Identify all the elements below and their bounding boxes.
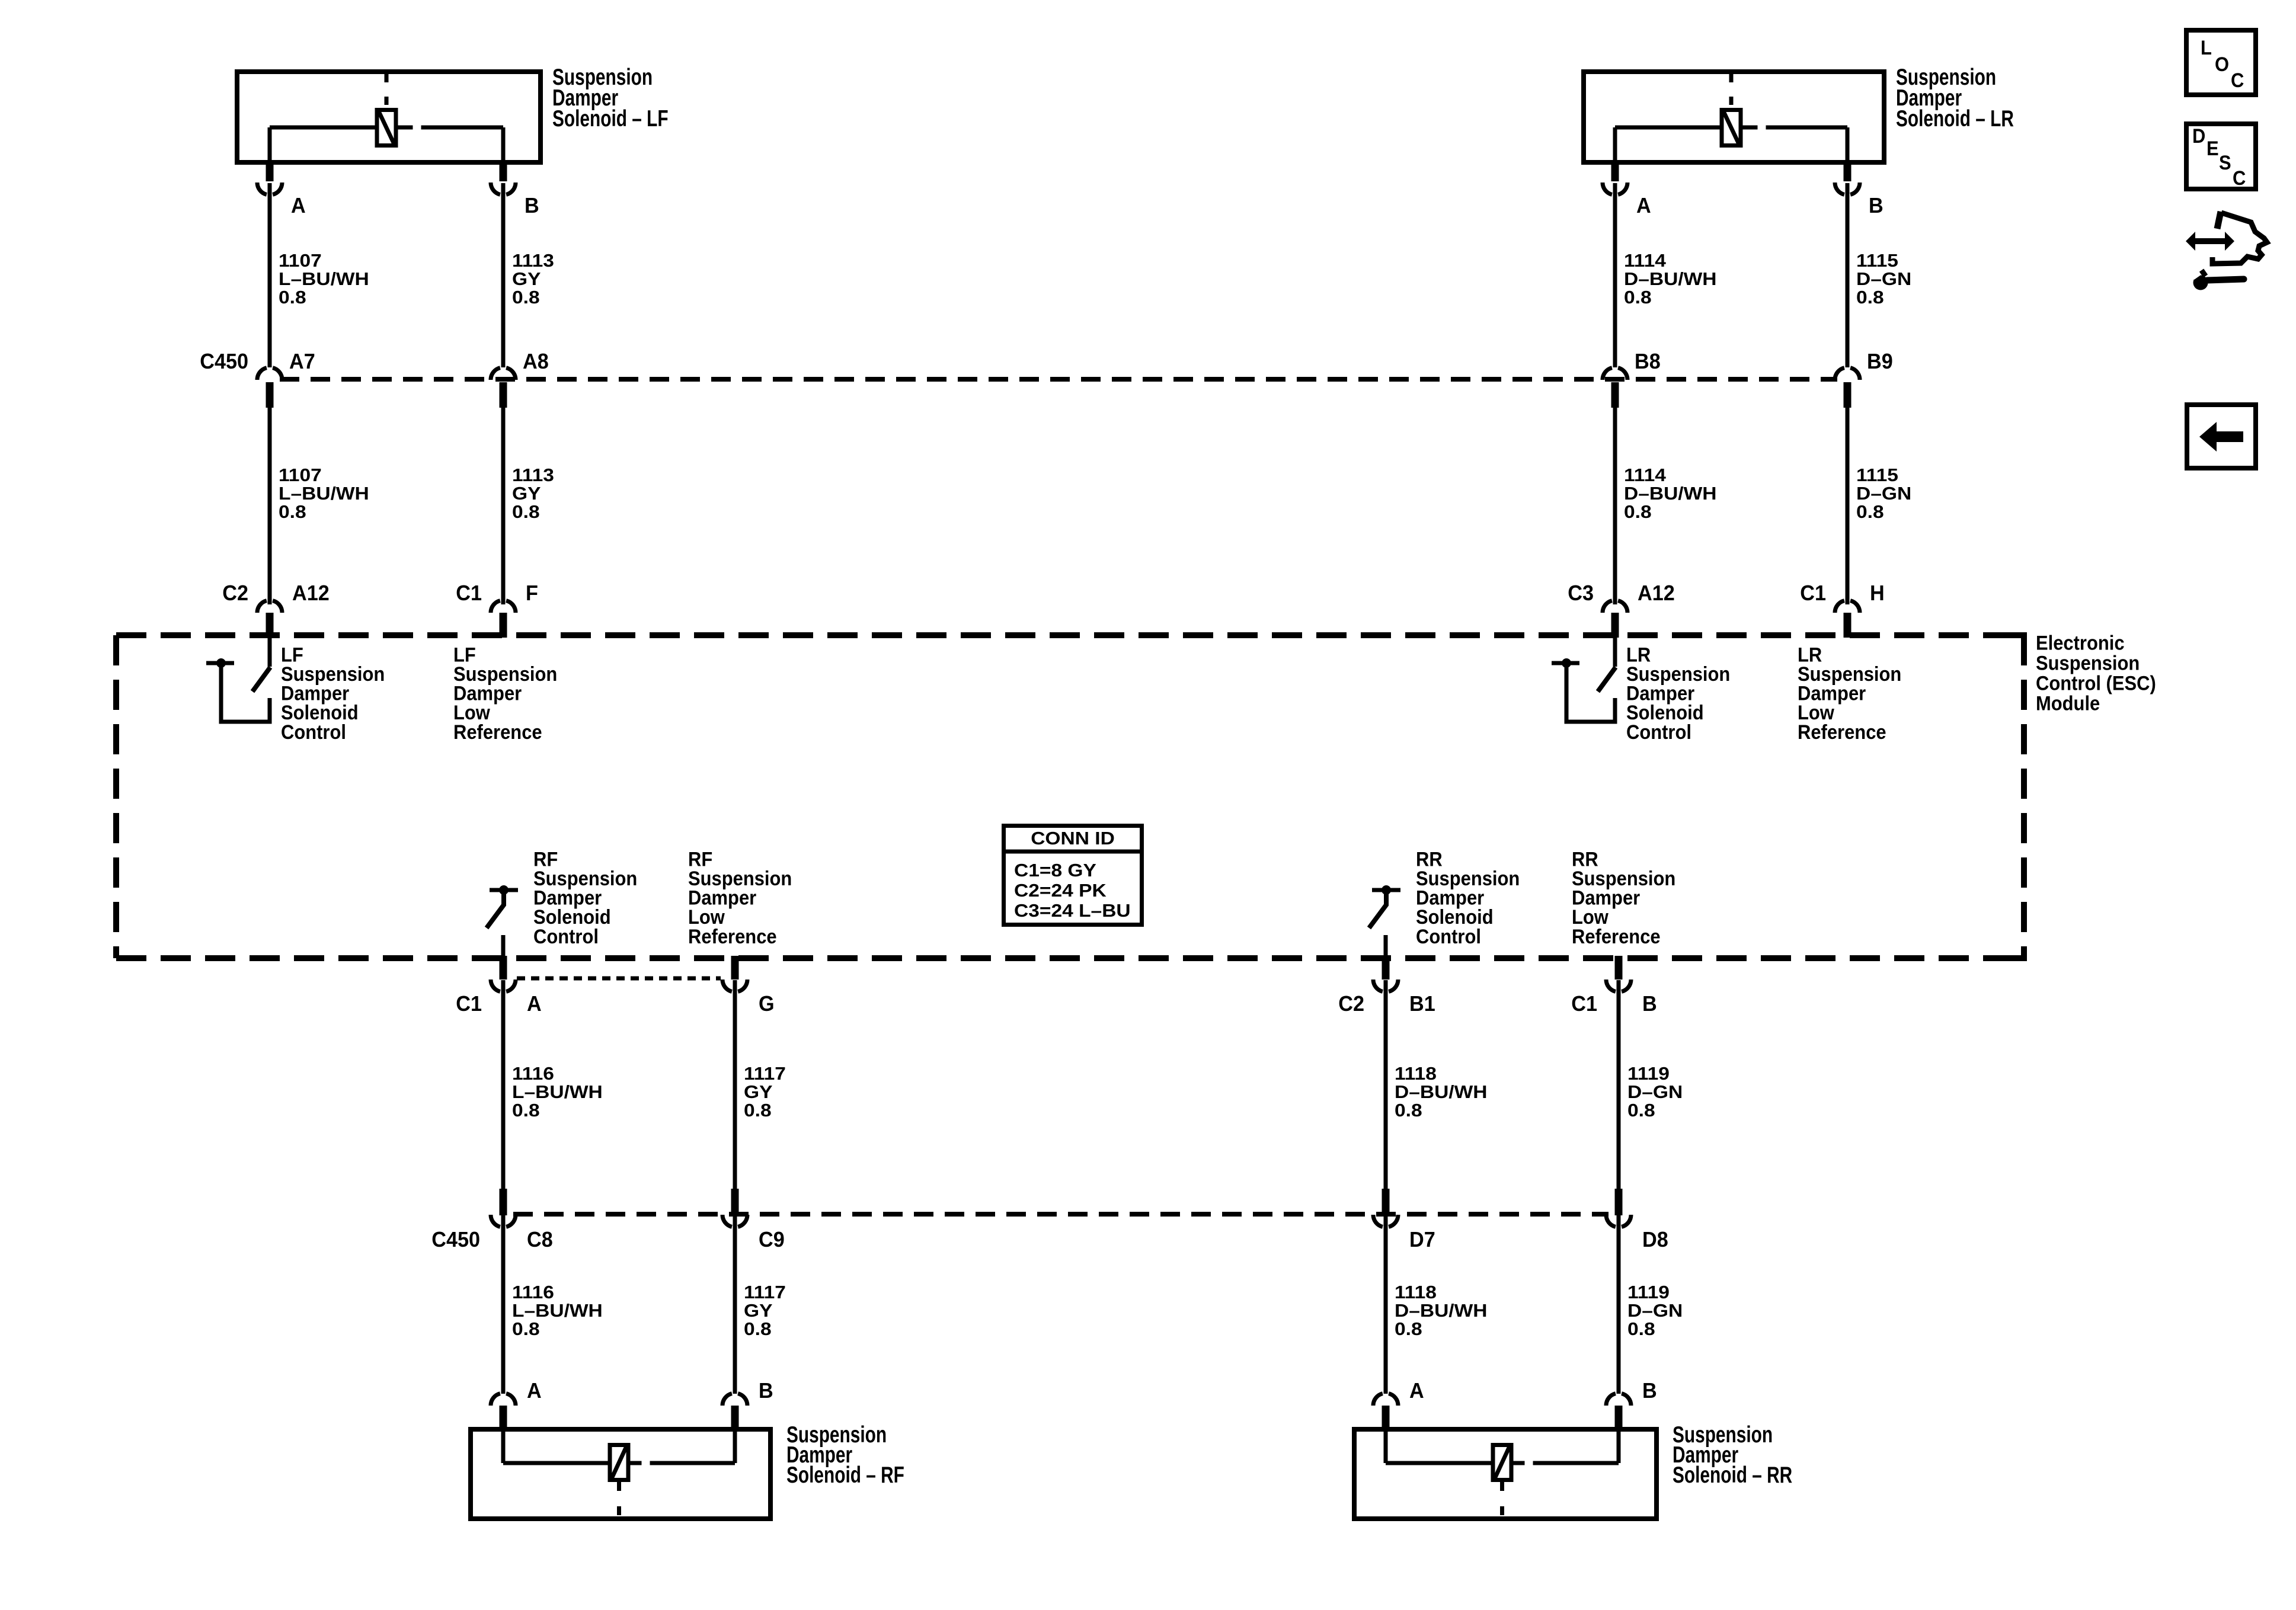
svg-text:C2=24 PK: C2=24 PK [1014, 881, 1107, 901]
wire 1114 segment C450 to ESC module [1613, 406, 1617, 604]
connector C450 terminal C9 (pin + arc) [722, 1189, 747, 1227]
pin label B1 (module bottom) [1409, 992, 1435, 1016]
svg-text:0.8: 0.8 [512, 502, 540, 522]
wire 1117 segment C450 to solenoid RF [733, 1215, 737, 1394]
diagnostic icon double-headed arrow [2186, 232, 2234, 251]
label LF Suspension Damper Solenoid Control [281, 644, 385, 743]
svg-text:Solenoid – LF: Solenoid – LF [552, 106, 669, 132]
svg-text:L–BU/WH: L–BU/WH [279, 269, 369, 289]
in-line connector C450 dashed line (lower) [513, 1212, 1609, 1217]
connector terminal G at ESC module bottom (pin + arc) [722, 956, 747, 991]
connector C450 label (lower) [431, 1228, 480, 1251]
svg-text:1116: 1116 [512, 1064, 554, 1084]
svg-text:D–BU/WH: D–BU/WH [1624, 484, 1717, 504]
driver switch RR solenoid control (blade) [1369, 892, 1386, 928]
pin label A8 (C450) [523, 350, 549, 373]
wire 1119 segment C450 to solenoid RR [1617, 1215, 1621, 1394]
wire segment inside box RF pin A to coil [503, 1429, 609, 1463]
svg-text:A8: A8 [523, 350, 549, 373]
svg-text:1113: 1113 [512, 251, 554, 271]
svg-text:A: A [1409, 1379, 1424, 1403]
svg-text:C3=24 L–BU: C3=24 L–BU [1014, 901, 1131, 921]
svg-text:0.8: 0.8 [1624, 287, 1652, 308]
svg-text:A: A [291, 194, 306, 217]
svg-text:H: H [1870, 581, 1885, 605]
svg-text:A: A [1636, 194, 1651, 217]
svg-text:F: F [526, 581, 538, 605]
svg-text:A7: A7 [289, 350, 315, 373]
label RF Suspension Damper Low Reference [688, 848, 792, 948]
wire segment inside box RR pin A to coil [1386, 1429, 1492, 1463]
svg-text:E: E [2207, 137, 2219, 160]
svg-text:B1: B1 [1409, 992, 1435, 1016]
wire label 1115 D–GN 0.8 (upper) [1856, 251, 1911, 308]
svg-text:A12: A12 [1638, 581, 1675, 605]
connector C1 terminal H at ESC module top (arc + pin) [1835, 601, 1860, 638]
connector label C2 (module bottom) [1338, 992, 1364, 1016]
wire segment inside box LF coil to pin B (with gap) [397, 127, 504, 163]
diagnostic icon bent outline arrow [2212, 212, 2267, 264]
svg-text:1107: 1107 [279, 465, 322, 485]
svg-text:0.8: 0.8 [1395, 1100, 1422, 1121]
svg-text:Solenoid – RF: Solenoid – RF [786, 1462, 904, 1488]
svg-text:0.8: 0.8 [1624, 502, 1652, 522]
connector C3 terminal A12 at ESC module top (arc + pin) [1603, 601, 1627, 638]
svg-text:O: O [2215, 53, 2229, 76]
svg-text:D7: D7 [1409, 1228, 1435, 1251]
wire 1107 segment C450 to ESC module [268, 406, 272, 604]
svg-text:D–BU/WH: D–BU/WH [1395, 1301, 1488, 1321]
dashed actuator stem inside box RF [617, 1482, 621, 1516]
svg-text:D–GN: D–GN [1856, 269, 1911, 289]
CONN ID table box [1002, 826, 1144, 925]
svg-text:1114: 1114 [1624, 251, 1666, 271]
svg-text:B8: B8 [1635, 350, 1661, 373]
svg-text:Reference: Reference [688, 925, 777, 948]
wire 1118 segment C450 to solenoid RR [1384, 1215, 1388, 1394]
svg-text:Solenoid – RR: Solenoid – RR [1673, 1462, 1792, 1488]
svg-text:B: B [1642, 1379, 1657, 1403]
connector pin A of solenoid LR (pin + socket arc) [1603, 165, 1627, 194]
svg-text:1119: 1119 [1627, 1064, 1670, 1084]
svg-text:Control (ESC): Control (ESC) [2036, 672, 2156, 694]
svg-text:0.8: 0.8 [1856, 502, 1884, 522]
svg-text:Reference: Reference [453, 721, 542, 743]
connector pin B of solenoid RR (arc + pin) [1606, 1394, 1631, 1429]
pin label B (RR solenoid) [1642, 1379, 1657, 1403]
wire segment inside box LF pin A to coil [270, 127, 376, 163]
pin label B9 (C450) [1867, 350, 1893, 373]
wire segment inside box LR pin A to coil [1615, 127, 1721, 163]
solenoid coil LF [377, 110, 396, 146]
pin label F (module top) [526, 581, 538, 605]
wire RR control to module boundary [1384, 935, 1388, 958]
connector pin B of solenoid LR (pin + socket arc) [1835, 165, 1860, 194]
svg-text:C9: C9 [759, 1228, 785, 1251]
pin label H (module top) [1870, 581, 1885, 605]
solenoid box outline - Suspension Damper Solenoid - LF [237, 72, 541, 162]
svg-text:0.8: 0.8 [279, 287, 306, 308]
svg-text:L–BU/WH: L–BU/WH [512, 1082, 603, 1102]
pin label D7 (C450 lower) [1409, 1228, 1435, 1251]
wire label 1107 L–BU/WH 0.8 (upper) [279, 251, 369, 308]
svg-text:0.8: 0.8 [1627, 1100, 1655, 1121]
svg-text:B: B [1642, 992, 1657, 1016]
wire label 1119 D–GN 0.8 (lower) [1627, 1282, 1683, 1339]
connector pin A of solenoid LF (pin + socket arc) [257, 165, 282, 194]
label LR Suspension Damper Low Reference [1798, 644, 1901, 743]
pin label B (LR solenoid) [1869, 194, 1884, 217]
svg-text:1115: 1115 [1856, 465, 1898, 485]
wire 1113 segment solenoid LF B to C450 [501, 183, 506, 367]
wire 1118 segment ESC module to C450 [1384, 980, 1388, 1189]
wire RF control to module boundary [501, 935, 506, 958]
connector C450 label (upper) [200, 350, 248, 373]
svg-text:0.8: 0.8 [1395, 1319, 1422, 1339]
connector C450 terminal D8 (pin + arc) [1606, 1189, 1631, 1227]
wire label 1116 L–BU/WH 0.8 (lower) [512, 1282, 603, 1339]
in-line connector C450 dashed line (upper) [280, 377, 1837, 382]
svg-text:D: D [2192, 125, 2205, 148]
connector label C1 (module bottom) [456, 992, 482, 1016]
wire 1119 segment ESC module to C450 [1617, 980, 1621, 1189]
connector C450 terminal B8 (arc + pin) [1603, 368, 1627, 408]
svg-text:A12: A12 [292, 581, 330, 605]
driver switch LF internal node bar and junction dot [206, 658, 234, 668]
pin label A12 (module top) [292, 581, 330, 605]
pin label D8 (C450 lower) [1642, 1228, 1668, 1251]
driver switch RF solenoid control (blade) [487, 892, 504, 928]
svg-text:0.8: 0.8 [512, 1100, 540, 1121]
connector pin B of solenoid LF (pin + socket arc) [491, 165, 516, 194]
connector C450 terminal A8 (arc + pin) [491, 368, 516, 408]
DESC hyperlink icon box [2186, 124, 2256, 189]
wire label 1107 L–BU/WH 0.8 (lower) [279, 465, 369, 522]
wire 1114 segment solenoid LR A to C450 [1613, 183, 1617, 367]
driver switch LR solenoid control (blade) [1598, 667, 1616, 692]
svg-text:Electronic: Electronic [2036, 632, 2125, 654]
svg-text:B: B [1869, 194, 1884, 217]
diagnostic icon wrench [2192, 269, 2244, 290]
svg-text:1107: 1107 [279, 251, 322, 271]
driver switch RR internal node bar and junction dot [1372, 885, 1400, 895]
wire label 1116 L–BU/WH 0.8 (upper) [512, 1064, 603, 1121]
driver switch LF solenoid control (blade) [252, 667, 270, 692]
pin label A (module bottom) [527, 992, 542, 1016]
wire 1115 segment solenoid LR B to C450 [1846, 183, 1850, 367]
svg-text:Control: Control [281, 721, 346, 743]
wire label 1118 D–BU/WH 0.8 (upper) [1395, 1064, 1488, 1121]
svg-text:GY: GY [512, 484, 541, 504]
svg-text:C: C [2233, 167, 2246, 190]
pin label G (module bottom) [759, 992, 775, 1016]
CONN ID rows C1=8 GY / C2=24 PK / C3=24 L-BU [1014, 860, 1131, 921]
solenoid coil RF [610, 1445, 628, 1480]
svg-text:G: G [759, 992, 775, 1016]
label Electronic Suspension Control (ESC) Module [2036, 632, 2156, 715]
RF harness in-line dotted link [517, 977, 721, 981]
label Suspension Damper Solenoid - RF [786, 1422, 904, 1488]
svg-text:B: B [525, 194, 539, 217]
wire label 1119 D–GN 0.8 (upper) [1627, 1064, 1683, 1121]
wire label 1117 GY 0.8 (lower) [744, 1282, 786, 1339]
svg-text:1118: 1118 [1395, 1282, 1437, 1302]
svg-text:1118: 1118 [1395, 1064, 1437, 1084]
svg-text:Control: Control [1626, 721, 1691, 743]
connector C450 terminal A7 (arc + pin) [257, 368, 282, 408]
svg-text:GY: GY [744, 1301, 772, 1321]
svg-text:0.8: 0.8 [744, 1100, 772, 1121]
svg-text:L: L [2201, 37, 2212, 59]
svg-text:D–BU/WH: D–BU/WH [1395, 1082, 1488, 1102]
wire 1115 segment C450 to ESC module [1846, 406, 1850, 604]
svg-text:GY: GY [512, 269, 541, 289]
svg-text:C1: C1 [1800, 581, 1826, 605]
wire 1116 segment ESC module to C450 [501, 980, 506, 1189]
label RR Suspension Damper Low Reference [1572, 848, 1675, 948]
pin label C8 (C450 lower) [527, 1228, 553, 1251]
connector label C1 (module top) [456, 581, 482, 605]
LOC hyperlink icon box [2186, 30, 2256, 95]
svg-text:L–BU/WH: L–BU/WH [512, 1301, 603, 1321]
label LF Suspension Damper Low Reference [453, 644, 557, 743]
pin label A (LF solenoid) [291, 194, 306, 217]
pin label A (RF solenoid) [527, 1379, 542, 1403]
wire label 1114 D–BU/WH 0.8 (lower) [1624, 465, 1717, 522]
svg-text:C8: C8 [527, 1228, 553, 1251]
pin label B8 (C450) [1635, 350, 1661, 373]
back arrow icon box [2187, 405, 2256, 468]
svg-text:CONN ID: CONN ID [1031, 828, 1115, 848]
wire 1107 segment solenoid LF A to C450 [268, 183, 272, 367]
dashed actuator stem inside box LF [385, 74, 389, 108]
svg-text:A: A [527, 1379, 542, 1403]
svg-text:0.8: 0.8 [1627, 1319, 1655, 1339]
svg-text:1119: 1119 [1627, 1282, 1670, 1302]
connector label C3 (module top) [1568, 581, 1594, 605]
svg-text:D–GN: D–GN [1627, 1301, 1683, 1321]
svg-text:B9: B9 [1867, 350, 1893, 373]
connector label C2 (module top) [222, 581, 248, 605]
svg-text:Control: Control [1416, 925, 1481, 948]
svg-text:GY: GY [744, 1082, 772, 1102]
wire label 1113 GY 0.8 (upper) [512, 251, 554, 308]
wire label 1117 GY 0.8 (upper) [744, 1064, 786, 1121]
Electronic Suspension Control (ESC) Module dashed outline [116, 635, 2027, 958]
connector C1 terminal B at ESC module bottom (pin + arc) [1606, 956, 1631, 991]
driver switch RF internal node bar and junction dot [490, 885, 518, 895]
pin label A12 (module top) [1638, 581, 1675, 605]
svg-text:C450: C450 [200, 350, 248, 373]
solenoid coil LR [1722, 110, 1741, 146]
label RF Suspension Damper Solenoid Control [533, 848, 637, 948]
wire segment inside box RR coil to pin B (with gap) [1512, 1429, 1619, 1463]
svg-text:1113: 1113 [512, 465, 554, 485]
svg-text:Solenoid – LR: Solenoid – LR [1896, 106, 2014, 132]
wire segment inside box LR coil to pin B (with gap) [1742, 127, 1848, 163]
wire label 1113 GY 0.8 (lower) [512, 465, 554, 522]
svg-text:0.8: 0.8 [512, 1319, 540, 1339]
svg-text:0.8: 0.8 [279, 502, 306, 522]
label LR Suspension Damper Solenoid Control [1626, 644, 1730, 743]
pin label A7 (C450) [289, 350, 315, 373]
svg-text:C1: C1 [1571, 992, 1597, 1016]
wire label 1115 D–GN 0.8 (lower) [1856, 465, 1911, 522]
svg-text:A: A [527, 992, 542, 1016]
dashed actuator stem inside box RR [1500, 1482, 1504, 1516]
connector pin A of solenoid RF (arc + pin) [491, 1394, 516, 1429]
solenoid coil RR [1493, 1445, 1511, 1480]
dashed actuator stem inside box LR [1729, 74, 1734, 108]
wire 1117 segment ESC module to C450 [733, 980, 737, 1189]
connector C1 terminal F at ESC module top (arc + pin) [491, 601, 516, 638]
connector pin A of solenoid RR (arc + pin) [1373, 1394, 1398, 1429]
svg-text:1114: 1114 [1624, 465, 1666, 485]
svg-text:D–GN: D–GN [1627, 1082, 1683, 1102]
svg-text:Module: Module [2036, 692, 2100, 715]
connector C2 terminal A12 at ESC module top (arc + pin) [257, 601, 282, 638]
CONN ID header text [1031, 828, 1115, 848]
label Suspension Damper Solenoid - LF [552, 65, 669, 132]
wire from pin into ESC module (LR control) [1613, 638, 1617, 667]
svg-text:0.8: 0.8 [512, 287, 540, 308]
svg-text:D–BU/WH: D–BU/WH [1624, 269, 1717, 289]
wire label 1114 D–BU/WH 0.8 (upper) [1624, 251, 1717, 308]
svg-text:1116: 1116 [512, 1282, 554, 1302]
connector C450 terminal B9 (arc + pin) [1835, 368, 1860, 408]
svg-text:B: B [759, 1379, 773, 1403]
driver switch LR return conductor [1566, 663, 1615, 722]
pin label B (module bottom) [1642, 992, 1657, 1016]
driver switch LF return conductor [221, 663, 270, 722]
svg-text:Reference: Reference [1572, 925, 1661, 948]
connector pin B of solenoid RF (arc + pin) [722, 1394, 747, 1429]
connector C1 terminal A at ESC module bottom (pin + arc) [491, 956, 516, 991]
svg-text:C2: C2 [222, 581, 248, 605]
pin label B (LF solenoid) [525, 194, 539, 217]
svg-text:Control: Control [533, 925, 599, 948]
wire 1113 segment C450 to ESC module [501, 406, 506, 604]
svg-text:C1=8 GY: C1=8 GY [1014, 860, 1096, 881]
svg-text:C3: C3 [1568, 581, 1594, 605]
wire segment inside box RF coil to pin B (with gap) [629, 1429, 736, 1463]
svg-text:L–BU/WH: L–BU/WH [279, 484, 369, 504]
svg-text:C1: C1 [456, 992, 482, 1016]
svg-text:Reference: Reference [1798, 721, 1886, 743]
svg-text:C: C [2231, 69, 2244, 92]
connector label C1 (module bottom) [1571, 992, 1597, 1016]
wire 1116 segment C450 to solenoid RF [501, 1215, 506, 1394]
svg-text:1115: 1115 [1856, 251, 1898, 271]
svg-text:1117: 1117 [744, 1064, 786, 1084]
pin label A (LR solenoid) [1636, 194, 1651, 217]
connector C2 terminal B1 at ESC module bottom (pin + arc) [1373, 956, 1398, 991]
driver switch LR internal node bar and junction dot [1552, 658, 1579, 668]
svg-text:1117: 1117 [744, 1282, 786, 1302]
solenoid box outline - Suspension Damper Solenoid - LR [1584, 72, 1884, 162]
label Suspension Damper Solenoid - RR [1673, 1422, 1792, 1488]
svg-text:D8: D8 [1642, 1228, 1668, 1251]
label Suspension Damper Solenoid - LR [1896, 65, 2014, 132]
svg-text:S: S [2219, 152, 2231, 174]
solenoid box outline - Suspension Damper Solenoid - RF [471, 1429, 770, 1519]
svg-text:C2: C2 [1338, 992, 1364, 1016]
svg-text:Suspension: Suspension [2036, 652, 2140, 674]
wire from pin into ESC module (LF control) [268, 638, 272, 667]
svg-text:0.8: 0.8 [744, 1319, 772, 1339]
connector C450 terminal C8 (pin + arc) [491, 1189, 516, 1227]
svg-text:C1: C1 [456, 581, 482, 605]
connector label C1 (module top) [1800, 581, 1826, 605]
svg-text:0.8: 0.8 [1856, 287, 1884, 308]
label RR Suspension Damper Solenoid Control [1416, 848, 1520, 948]
pin label A (RR solenoid) [1409, 1379, 1424, 1403]
wire label 1118 D–BU/WH 0.8 (lower) [1395, 1282, 1488, 1339]
svg-text:D–GN: D–GN [1856, 484, 1911, 504]
svg-text:C450: C450 [431, 1228, 480, 1251]
solenoid box outline - Suspension Damper Solenoid - RR [1354, 1429, 1657, 1519]
connector C450 terminal D7 (pin + arc) [1373, 1189, 1398, 1227]
pin label B (RF solenoid) [759, 1379, 773, 1403]
pin label C9 (C450 lower) [759, 1228, 785, 1251]
